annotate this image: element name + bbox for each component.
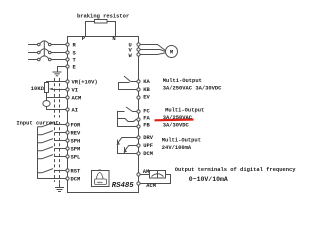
- svg-text:KB: KB: [143, 86, 150, 93]
- svg-text:T: T: [73, 57, 77, 64]
- svg-text:ACM: ACM: [146, 182, 156, 189]
- svg-text:N: N: [112, 35, 115, 42]
- svg-text:Multi-Output: Multi-Output: [162, 136, 201, 143]
- svg-text:DCM: DCM: [143, 150, 153, 157]
- svg-text:Output terminals of digital fr: Output terminals of digital frequency: [175, 166, 296, 173]
- svg-text:Multi-Output: Multi-Output: [165, 107, 204, 114]
- svg-text:R: R: [73, 42, 77, 49]
- svg-text:DRV: DRV: [143, 134, 154, 141]
- svg-text:FOR: FOR: [71, 122, 82, 129]
- svg-text:FA: FA: [143, 115, 150, 122]
- svg-text:VI: VI: [72, 87, 79, 94]
- svg-text:SPH: SPH: [71, 138, 81, 145]
- svg-text:VR(+10V): VR(+10V): [72, 79, 98, 86]
- svg-text:0~10V/10mA: 0~10V/10mA: [189, 176, 228, 183]
- svg-text:SPM: SPM: [71, 146, 81, 153]
- svg-text:KA: KA: [143, 78, 150, 85]
- svg-text:SPL: SPL: [71, 154, 81, 161]
- svg-text:UPF: UPF: [143, 142, 153, 149]
- svg-text:AM: AM: [143, 168, 150, 175]
- svg-text:10KΩ: 10KΩ: [31, 85, 45, 92]
- svg-text:ACM: ACM: [72, 95, 82, 102]
- svg-text:3A/250VAC 3A/30VDC: 3A/250VAC 3A/30VDC: [163, 85, 222, 92]
- svg-text:DCM: DCM: [71, 176, 81, 183]
- svg-text:W: W: [129, 52, 133, 59]
- svg-text:FB: FB: [143, 122, 150, 129]
- svg-text:RS485: RS485: [112, 182, 135, 190]
- svg-text:RST: RST: [71, 168, 82, 175]
- svg-text:3A/250VAC: 3A/250VAC: [163, 114, 193, 121]
- svg-text:Multi-Output: Multi-Output: [163, 77, 202, 84]
- svg-text:E: E: [73, 64, 77, 71]
- svg-text:M: M: [170, 49, 173, 56]
- svg-text:3A/30VDC: 3A/30VDC: [163, 121, 190, 128]
- svg-text:braking resistor: braking resistor: [77, 12, 129, 19]
- svg-text:24V/100mA: 24V/100mA: [162, 144, 192, 151]
- svg-text:EV: EV: [143, 94, 150, 101]
- svg-text:S: S: [73, 50, 77, 57]
- svg-text:REV: REV: [71, 130, 82, 137]
- svg-text:Input current: Input current: [16, 120, 58, 127]
- svg-text:AI: AI: [72, 107, 79, 114]
